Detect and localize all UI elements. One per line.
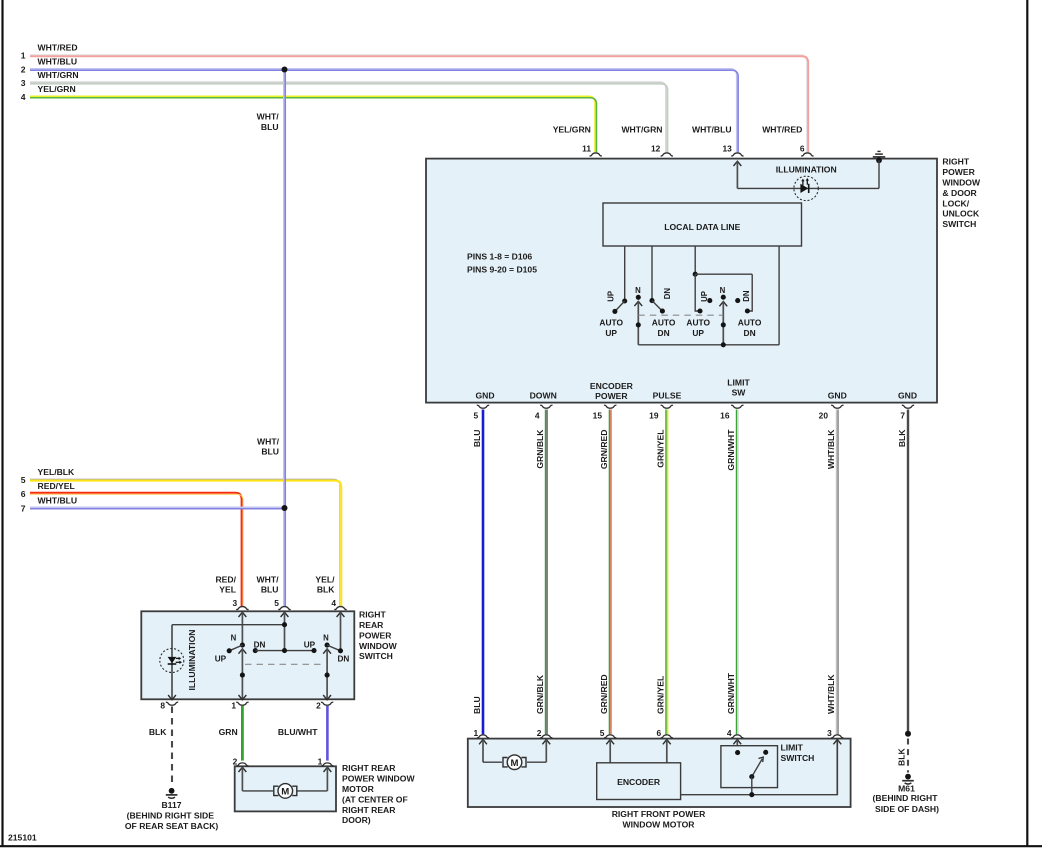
- svg-text:4: 4: [21, 92, 26, 102]
- svg-text:WINDOW MOTOR: WINDOW MOTOR: [623, 820, 696, 830]
- S3 pin4 arrow: [337, 612, 345, 617]
- pin 11 connector cap: [590, 153, 602, 156]
- M1 pin 2 connector cap: [236, 763, 248, 766]
- mechanical link dashed line U1: [638, 314, 723, 316]
- M2 pin3 arrow: [833, 740, 841, 745]
- wire BLU/WHT pin2 to rear motor pin1: [326, 706, 329, 761]
- svg-text:20: 20: [819, 410, 829, 420]
- svg-text:1: 1: [318, 756, 323, 766]
- svg-text:UP: UP: [605, 328, 617, 338]
- svg-text:WHT/BLU: WHT/BLU: [38, 56, 78, 66]
- svg-text:ILLUMINATION: ILLUMINATION: [776, 165, 837, 175]
- S3 pin 5 connector cap: [278, 607, 290, 610]
- svg-text:WHT/BLK: WHT/BLK: [826, 429, 836, 469]
- wire BLK dashed pin8 to B117: [171, 707, 173, 786]
- wire LDL to common bottom: [778, 246, 780, 345]
- svg-text:YEL/GRN: YEL/GRN: [553, 125, 591, 135]
- svg-text:YEL: YEL: [219, 585, 236, 595]
- wire encoder to M2 pin3: [681, 740, 838, 795]
- S3 bottom pin 8 cup: [166, 702, 178, 705]
- junction dots on S3 verticals: [240, 673, 245, 678]
- svg-text:SWITCH: SWITCH: [942, 219, 976, 229]
- U1 bottom pin 15 connector cup: [604, 405, 616, 408]
- svg-text:BLK: BLK: [897, 748, 907, 766]
- S3 pin 3 connector cap: [236, 607, 248, 610]
- pin 13 connector cap: [731, 153, 743, 156]
- svg-text:4: 4: [535, 410, 540, 420]
- svg-text:WHT/BLU: WHT/BLU: [692, 125, 732, 135]
- svg-text:8: 8: [160, 701, 165, 711]
- svg-text:GRN/WHT: GRN/WHT: [726, 429, 736, 471]
- M2 pin 1 connector cap: [477, 735, 489, 738]
- svg-text:1: 1: [21, 51, 26, 61]
- svg-text:1: 1: [474, 728, 479, 738]
- svg-text:ENCODER: ENCODER: [590, 381, 634, 391]
- svg-text:B117: B117: [161, 800, 181, 810]
- svg-text:2: 2: [316, 701, 321, 711]
- pin 6 connector cap: [801, 153, 813, 156]
- right rear power window motor box M1: [235, 766, 336, 811]
- junction dot common bottom: [721, 342, 726, 347]
- svg-text:RIGHT: RIGHT: [359, 610, 386, 620]
- page border bottom: [0, 845, 1042, 847]
- svg-text:3: 3: [827, 728, 832, 738]
- wire GRN/RED pin15 to motor pin5: [608, 410, 610, 735]
- M2 pin 5 connector cap: [604, 735, 616, 738]
- wire limit switch to encoder line: [751, 777, 753, 795]
- svg-text:WINDOW: WINDOW: [942, 178, 981, 188]
- svg-text:7: 7: [900, 410, 905, 420]
- limit switch contact dot top: [735, 750, 740, 755]
- wire LDL to DN contact: [651, 246, 653, 301]
- svg-text:M: M: [511, 758, 519, 769]
- pin 12 connector cap: [661, 153, 673, 156]
- svg-text:5: 5: [474, 410, 479, 420]
- svg-text:POWER WINDOW: POWER WINDOW: [342, 774, 415, 784]
- svg-text:7: 7: [21, 503, 26, 513]
- svg-text:UP: UP: [215, 654, 227, 663]
- wire WHT/RED from node 1 to switch pin 6: [30, 55, 807, 153]
- svg-text:RIGHT FRONT POWER: RIGHT FRONT POWER: [612, 809, 706, 819]
- junction dot wire 7 with WHT/BLU vertical: [282, 505, 288, 511]
- svg-text:WHT/BLK: WHT/BLK: [826, 674, 836, 714]
- svg-text:DN: DN: [337, 654, 349, 663]
- svg-text:(AT CENTER OF: (AT CENTER OF: [342, 794, 408, 804]
- M2 pin2 arrow: [542, 740, 550, 745]
- M2 pin 4 connector cap: [731, 735, 743, 738]
- svg-text:AUTO: AUTO: [738, 317, 762, 327]
- svg-text:YEL/GRN: YEL/GRN: [38, 84, 76, 94]
- svg-text:YEL/BLK: YEL/BLK: [38, 467, 76, 477]
- svg-text:BLU: BLU: [472, 696, 482, 714]
- LOCAL DATA LINE box: [603, 203, 802, 246]
- svg-text:6: 6: [800, 144, 805, 154]
- svg-text:M61: M61: [898, 784, 915, 794]
- wire switch common bottom: [638, 344, 779, 346]
- svg-text:5: 5: [600, 728, 605, 738]
- svg-text:BLU: BLU: [261, 585, 279, 595]
- svg-text:BLK: BLK: [317, 585, 335, 595]
- svg-text:PULSE: PULSE: [653, 391, 682, 401]
- wire auto branch top: [695, 273, 752, 275]
- svg-text:SWITCH: SWITCH: [781, 753, 815, 763]
- svg-text:RIGHT: RIGHT: [942, 157, 969, 167]
- page border left: [1, 0, 3, 847]
- svg-text:SWITCH: SWITCH: [359, 651, 393, 661]
- svg-text:MOTOR: MOTOR: [342, 784, 375, 794]
- svg-text:RED/YEL: RED/YEL: [38, 481, 75, 491]
- S3 left neutral arrow: [239, 649, 247, 654]
- svg-text:WHT/RED: WHT/RED: [38, 42, 78, 52]
- S3 pin3 arrow: [239, 612, 247, 617]
- S3 bottom pin arrows: [168, 695, 176, 700]
- junction dot auto branch: [693, 272, 698, 277]
- limit switch box inside M2: [721, 746, 778, 788]
- S2 neutral arrow: [719, 302, 727, 307]
- S3 left switch contact: [240, 643, 245, 648]
- junction dot BLK wire end: [905, 731, 911, 737]
- S1 junction dot on arrow shaft: [636, 322, 641, 327]
- switch S1 DN contact: [649, 298, 654, 303]
- svg-text:AUTO: AUTO: [652, 317, 676, 327]
- svg-text:M: M: [281, 787, 289, 798]
- limit switch lever: [752, 759, 762, 777]
- svg-text:BLK: BLK: [897, 429, 907, 447]
- svg-text:1: 1: [231, 701, 236, 711]
- svg-text:POWER: POWER: [942, 167, 975, 177]
- S2 DN contact dot: [735, 298, 740, 303]
- wire BLU pin5 to motor pin1: [482, 410, 485, 735]
- S2 junction dot on arrow shaft: [721, 322, 726, 327]
- svg-text:WHT/: WHT/: [257, 112, 280, 122]
- wire GRN/WHT pin16 to motor pin4: [736, 410, 738, 735]
- wire WHT/BLK pin20 to motor pin3: [836, 410, 838, 735]
- svg-text:WHT/RED: WHT/RED: [762, 125, 802, 135]
- svg-text:LIMIT: LIMIT: [781, 743, 804, 753]
- svg-text:16: 16: [720, 410, 730, 420]
- encoder box inside M2: [597, 763, 681, 800]
- svg-text:UP: UP: [304, 641, 316, 650]
- svg-text:REAR: REAR: [359, 620, 384, 630]
- junction dot chassis ground on U1 edge: [876, 157, 882, 163]
- svg-text:BLU/WHT: BLU/WHT: [278, 727, 318, 737]
- svg-text:YEL/: YEL/: [315, 574, 335, 584]
- M2 pin6 arrow: [663, 740, 671, 745]
- U1 bottom pin 16 connector cup: [731, 405, 743, 408]
- junction dot pin5 on middle line: [282, 648, 287, 653]
- svg-text:15: 15: [593, 410, 603, 420]
- wire WHT/BLU vertical drop from junction: [283, 70, 285, 607]
- svg-text:POWER: POWER: [595, 391, 628, 401]
- page border right: [1026, 0, 1028, 847]
- limit switch fixed contact dot: [763, 750, 768, 755]
- junction dot illumination feed: [282, 622, 287, 627]
- svg-text:RIGHT REAR: RIGHT REAR: [342, 805, 396, 815]
- svg-text:GND: GND: [898, 391, 917, 401]
- wire WHT/GRN from node 3 to switch pin 12: [30, 82, 666, 152]
- svg-text:UP: UP: [607, 291, 616, 302]
- wire WHT/BLU from node 2 to switch pin 13: [30, 69, 737, 153]
- wire RED/YEL from node 6 to rear switch pin 3: [30, 493, 242, 607]
- svg-text:2: 2: [233, 756, 238, 766]
- S2 N contact dot: [721, 295, 726, 300]
- wire S3 illumination feed: [172, 624, 285, 626]
- svg-text:ENCODER: ENCODER: [617, 777, 661, 787]
- svg-text:& DOOR: & DOOR: [942, 188, 977, 198]
- svg-text:19: 19: [649, 410, 659, 420]
- svg-text:215101: 215101: [8, 832, 37, 842]
- LED lamp U1 illumination: [794, 176, 818, 200]
- U1 bottom pin 7 connector cup: [902, 405, 914, 408]
- wire LDL to auto switch: [694, 246, 696, 274]
- svg-text:N: N: [323, 633, 329, 642]
- S3 right neutral arrow: [323, 649, 331, 654]
- svg-text:RED/: RED/: [215, 574, 236, 584]
- M1 pin2 arrow: [239, 767, 247, 772]
- U1 bottom pin 19 connector cup: [661, 405, 673, 408]
- M2 pin 2 connector cap: [540, 735, 552, 738]
- U1 bottom pin 5 connector cup: [477, 405, 489, 408]
- ground B117 symbol: [169, 788, 175, 794]
- svg-text:6: 6: [21, 489, 26, 499]
- svg-text:RIGHT REAR: RIGHT REAR: [342, 763, 396, 773]
- wire BLK pin7 to ground M61: [907, 410, 909, 734]
- svg-text:N: N: [635, 286, 641, 295]
- chassis ground symbol above U1: [873, 156, 885, 158]
- svg-text:N: N: [720, 286, 726, 295]
- svg-text:DOWN: DOWN: [530, 391, 557, 401]
- svg-text:(BEHIND RIGHT SIDE: (BEHIND RIGHT SIDE: [127, 811, 215, 821]
- svg-text:WHT/GRN: WHT/GRN: [38, 70, 79, 80]
- S3 pin5 arrow: [281, 612, 289, 617]
- S3 bottom pin 2 cup: [321, 702, 333, 705]
- svg-text:3: 3: [233, 598, 238, 608]
- motor symbol M2: [483, 761, 502, 763]
- svg-text:WHT/GRN: WHT/GRN: [621, 125, 662, 135]
- svg-text:WHT/: WHT/: [257, 436, 280, 446]
- svg-text:WINDOW: WINDOW: [359, 641, 398, 651]
- svg-text:DN: DN: [658, 328, 670, 338]
- svg-text:GRN/YEL: GRN/YEL: [656, 430, 666, 468]
- svg-text:BLK: BLK: [149, 727, 167, 737]
- S3 bottom pin 1 cup: [236, 702, 248, 705]
- svg-text:3: 3: [21, 78, 26, 88]
- svg-text:WHT/BLU: WHT/BLU: [38, 495, 78, 505]
- svg-text:SIDE OF DASH): SIDE OF DASH): [875, 804, 939, 814]
- wire LDL to UP contact: [624, 246, 626, 301]
- svg-text:AUTO: AUTO: [686, 317, 710, 327]
- svg-text:6: 6: [657, 728, 662, 738]
- wire GRN pin1 to rear motor pin2: [241, 706, 244, 761]
- M2 pin 6 connector cap: [661, 735, 673, 738]
- svg-text:DN: DN: [742, 290, 751, 302]
- svg-text:ILLUMINATION: ILLUMINATION: [187, 630, 197, 691]
- svg-text:4: 4: [331, 598, 336, 608]
- svg-text:OF REAR SEAT BACK): OF REAR SEAT BACK): [125, 821, 219, 831]
- S3 right switch contact: [325, 643, 330, 648]
- svg-text:PINS 1-8 = D106: PINS 1-8 = D106: [467, 251, 532, 261]
- M2 pin4 arrow: [733, 740, 741, 745]
- wire YEL/BLK from node 5 to rear switch pin 4: [30, 479, 340, 606]
- U1 bottom pin 4 connector cup: [540, 405, 552, 408]
- wire illumination line U1: [737, 187, 879, 189]
- M2 pin5 arrow: [606, 740, 614, 745]
- wire BLK dashed to M61: [907, 739, 909, 773]
- svg-text:LOCK/: LOCK/: [942, 198, 969, 208]
- wire WHT/BLU from node 7 to junction: [30, 506, 285, 508]
- svg-text:GRN/YEL: GRN/YEL: [656, 676, 666, 714]
- svg-text:LOCAL DATA LINE: LOCAL DATA LINE: [664, 222, 740, 232]
- svg-text:4: 4: [727, 728, 732, 738]
- svg-text:12: 12: [651, 144, 661, 154]
- junction dot limit switch on encoder wire: [749, 792, 754, 797]
- svg-text:DN: DN: [744, 328, 756, 338]
- wire pin13 arrow into U1: [734, 161, 742, 166]
- svg-text:BLU: BLU: [261, 122, 279, 132]
- svg-text:GRN/RED: GRN/RED: [599, 430, 609, 470]
- svg-text:UP: UP: [692, 328, 704, 338]
- wire GRN/YEL pin19 to motor pin6: [665, 410, 667, 735]
- svg-text:GRN/RED: GRN/RED: [599, 674, 609, 714]
- switch S1 UP contact: [622, 298, 627, 303]
- svg-text:GRN/BLK: GRN/BLK: [535, 674, 545, 714]
- svg-text:DOOR): DOOR): [342, 815, 371, 825]
- wire auto branch left leg: [695, 274, 700, 311]
- wire auto branch right leg: [747, 274, 752, 311]
- S2 UP contact dot: [707, 298, 712, 303]
- junction dot on WHT/BLU wire 2: [282, 67, 288, 73]
- wire YEL/GRN from node 4 to switch pin 11: [30, 96, 595, 152]
- svg-text:SW: SW: [732, 388, 747, 398]
- limit switch pivot dot: [749, 774, 754, 779]
- S3 pin 4 connector cap: [334, 607, 346, 610]
- M1 pin1 arrow: [324, 767, 332, 772]
- LED lamp S3 illumination: [160, 649, 184, 673]
- svg-text:2: 2: [21, 65, 26, 75]
- motor symbol M1: [242, 790, 273, 792]
- svg-text:GRN/WHT: GRN/WHT: [726, 672, 736, 714]
- svg-text:PINS 9-20 = D105: PINS 9-20 = D105: [467, 264, 537, 274]
- M1 pin 1 connector cap: [321, 763, 333, 766]
- svg-text:2: 2: [537, 728, 542, 738]
- svg-text:N: N: [231, 633, 237, 642]
- svg-text:(BEHIND RIGHT: (BEHIND RIGHT: [873, 793, 939, 803]
- mechanical link dashed line S3: [245, 663, 324, 665]
- ground M61 symbol: [905, 774, 911, 780]
- svg-text:UNLOCK: UNLOCK: [942, 209, 980, 219]
- S1 neutral arrow: [634, 301, 642, 306]
- M2 pin 3 connector cap: [831, 735, 843, 738]
- svg-text:BLU: BLU: [472, 430, 482, 448]
- svg-text:WHT/: WHT/: [257, 574, 280, 584]
- svg-text:GRN/BLK: GRN/BLK: [535, 429, 545, 469]
- S1 N contact dot: [636, 295, 641, 300]
- svg-text:DN: DN: [663, 288, 672, 300]
- svg-text:5: 5: [21, 475, 26, 485]
- right rear power window switch box S3: [141, 611, 354, 699]
- svg-text:GRN: GRN: [219, 727, 238, 737]
- svg-text:AUTO: AUTO: [599, 317, 623, 327]
- svg-text:LIMIT: LIMIT: [727, 377, 750, 387]
- right front power window motor box M2: [468, 739, 851, 807]
- S3 middle contact line: [253, 648, 258, 653]
- svg-text:11: 11: [582, 144, 591, 154]
- svg-text:POWER: POWER: [359, 630, 392, 640]
- wire GRN/BLK pin4 to motor pin2: [545, 410, 547, 735]
- svg-text:13: 13: [722, 144, 732, 154]
- svg-text:GND: GND: [475, 391, 494, 401]
- M2 pin1 arrow: [479, 740, 487, 745]
- right power window and door lock/unlock switch box U1: [426, 159, 937, 403]
- svg-text:BLU: BLU: [261, 447, 279, 457]
- U1 bottom pin 20 connector cup: [831, 405, 843, 408]
- svg-text:GND: GND: [828, 391, 847, 401]
- svg-text:5: 5: [274, 598, 279, 608]
